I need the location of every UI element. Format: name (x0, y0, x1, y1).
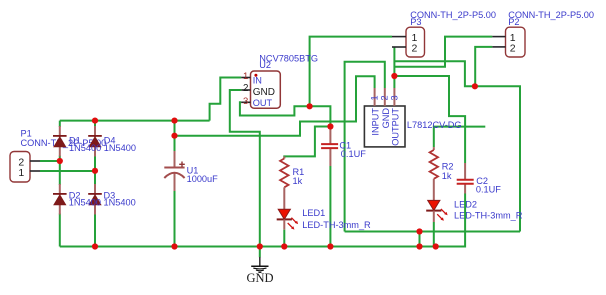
wire 12V to C2 top (394, 76, 465, 163)
wire LED2 bottom to ground rail (433, 222, 435, 247)
svg-text:1k: 1k (293, 176, 303, 186)
junction ground rail / U1 (171, 243, 177, 249)
junction top rail / right branch (92, 118, 98, 124)
resistor R2 (430, 147, 454, 181)
junction ground rail / GND symbol (257, 243, 263, 249)
connector P2 (506, 27, 526, 57)
wire P1 pin1 to bridge right branch (40, 170, 95, 172)
svg-text:GND: GND (246, 271, 273, 285)
U2 pin 3 stub (241, 101, 250, 103)
capacitor U1 (electrolytic 1000uF) (164, 151, 218, 191)
wire C1 bottom to ground rail (329, 166, 331, 247)
P2 pin 2 stub (492, 46, 505, 48)
wire R2 top tap (434, 127, 486, 148)
diode D4 (88, 126, 102, 157)
junction V+ rail / U1 branch (171, 133, 177, 139)
connector P3 (406, 27, 425, 57)
junction P1 pin2 / left branch (57, 158, 63, 164)
diode D1 (53, 126, 67, 157)
svg-text:2: 2 (412, 42, 418, 54)
junction ground rail / LED2 (433, 243, 439, 249)
wire 12V tap to C2 branch and P2 pin2 node (394, 61, 520, 231)
svg-text:1: 1 (18, 167, 24, 179)
svg-text:1N5400: 1N5400 (104, 143, 136, 153)
regulator U3 (L7812CV-DG) (364, 106, 405, 147)
svg-text:P2: P2 (508, 17, 519, 27)
junction 5V rail / P3 pin1 (307, 103, 313, 109)
junction ground rail upper / riser (416, 228, 422, 234)
regulator U2 (NCV7805BTG) (251, 71, 281, 108)
U3 pin 1 stub (374, 88, 376, 106)
svg-text:1: 1 (369, 95, 379, 100)
wire ground rail segment (lower right) (345, 231, 520, 233)
svg-text:LED1: LED1 (302, 208, 325, 218)
svg-text:2: 2 (243, 83, 248, 94)
wire P2 pin1 to 12V (394, 37, 492, 67)
svg-text:CONN-TH_2P-P5.00: CONN-TH_2P-P5.00 (508, 10, 594, 20)
U3 pin 2 stub (384, 88, 386, 106)
capacitor C1 (321, 127, 338, 167)
connector P1 (10, 152, 30, 183)
svg-text:1N5400: 1N5400 (69, 143, 101, 153)
diode D3 (88, 184, 102, 215)
junction P1 pin1 / right branch (92, 168, 98, 174)
wire riser joining ground rails (419, 232, 421, 247)
wire R1 tap from 5V node (284, 127, 330, 159)
svg-text:CONN-TH_2P-P5.00: CONN-TH_2P-P5.00 (410, 10, 496, 20)
wire LED1 bottom to ground rail (283, 230, 285, 247)
wire bridge right branch vertical (upper) (94, 121, 96, 127)
svg-text:U2: U2 (259, 60, 271, 70)
wire top rail (bridge + output) (60, 120, 210, 122)
junction 12V vertical (391, 73, 397, 79)
wire 5V to P3 pin1 (310, 37, 392, 107)
svg-text:0.1UF: 0.1UF (476, 185, 501, 195)
wire V+ branch vertical to U1 (174, 121, 176, 151)
P3 pin 2 stub (392, 46, 406, 48)
P1 pin 2 stub (30, 160, 40, 162)
U3 pin 3 stub (393, 88, 395, 106)
wire C2 bottom to ground rail (464, 194, 466, 248)
wire bridge left branch vertical (middle) (59, 156, 61, 186)
wire bridge right branch vertical (middle) (94, 156, 96, 186)
svg-text:3: 3 (243, 96, 248, 107)
junction 5V / C1 / R1 (327, 123, 333, 129)
wire 12V vertical P3 pin2 to L7812 OUTPUT (393, 47, 395, 88)
wire bottom ground rail (60, 246, 465, 248)
P1 pin 1 stub (30, 170, 40, 172)
P3 pin 1 stub (392, 36, 406, 38)
U2 pin 2 stub (241, 89, 250, 91)
diode D2 (53, 184, 67, 215)
svg-text:1N5400: 1N5400 (104, 198, 136, 208)
svg-text:INPUT: INPUT (371, 108, 381, 136)
svg-text:IN: IN (253, 76, 262, 86)
junction ground rail / LED1 (281, 243, 287, 249)
svg-text:2: 2 (380, 95, 390, 100)
svg-text:0.1UF: 0.1UF (341, 149, 366, 159)
wire L7812 GND pin2 to ground (345, 62, 385, 232)
svg-text:P3: P3 (410, 17, 421, 27)
svg-text:1k: 1k (442, 171, 452, 181)
resistor R1 (280, 156, 304, 187)
wire bridge left branch vertical (lower) (59, 214, 61, 247)
LED1 (277, 187, 298, 229)
wire P2 pin2 drop (475, 47, 492, 86)
junction ground rail / right branch (92, 243, 98, 249)
capacitor C2 (457, 163, 502, 195)
junction ground rail / C1 (327, 243, 333, 249)
wire P1 pin2 to bridge left branch (40, 160, 60, 162)
junction P2 pin2 node (472, 83, 478, 89)
wire U2 pin3 (OUT) 5V net (240, 102, 331, 126)
svg-text:LED-TH-3mm_R: LED-TH-3mm_R (302, 220, 371, 230)
wire U2 pin1 staircase from top rail (210, 78, 242, 121)
ground symbol GND (246, 247, 273, 285)
U2 pin 1 stub (241, 77, 250, 79)
wire bridge right branch vertical (lower) (94, 214, 96, 247)
LED2 (426, 179, 523, 222)
svg-text:1N5400: 1N5400 (69, 198, 101, 208)
P2 pin 1 stub (492, 36, 505, 38)
wire V+ rail to regulators (175, 76, 375, 136)
svg-text:L7812CV-DG: L7812CV-DG (407, 120, 462, 130)
wire U2 pin2 (GND) to bottom rail (230, 90, 260, 247)
svg-text:OUTPUT: OUTPUT (390, 108, 400, 146)
svg-text:3: 3 (390, 95, 400, 100)
svg-text:GND: GND (253, 87, 275, 98)
junction ground rail / riser (416, 243, 422, 249)
svg-text:1000uF: 1000uF (187, 174, 219, 184)
svg-text:2: 2 (510, 42, 516, 54)
svg-text:OUT: OUT (253, 98, 273, 108)
svg-text:1: 1 (243, 71, 248, 82)
junction top rail / U1 branch (171, 118, 177, 124)
wire bridge left branch vertical (upper) (59, 121, 61, 127)
